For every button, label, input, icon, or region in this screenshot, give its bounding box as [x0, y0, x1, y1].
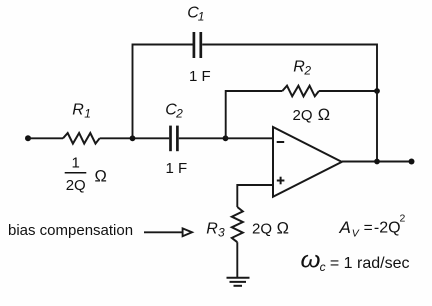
value 1/2Q ohm of R1 — [65, 155, 107, 195]
svg-text:1: 1 — [84, 107, 91, 121]
wire R3 to ground — [236, 242, 238, 278]
label R1 — [72, 102, 91, 121]
label C1 — [187, 4, 204, 23]
svg-text:1: 1 — [72, 155, 80, 172]
svg-text:ω: ω — [301, 247, 321, 273]
svg-text:c: c — [320, 260, 326, 274]
resistor R3 — [232, 207, 243, 242]
noninverting input wire to R3 — [237, 185, 273, 207]
output node junction — [374, 159, 380, 165]
resistor R1 — [63, 133, 100, 144]
node B junction — [223, 135, 229, 141]
wire C2 to node B — [179, 137, 226, 139]
svg-text:2Q: 2Q — [293, 107, 313, 124]
cutoff frequency formula wc = 1 rad/sec — [301, 247, 410, 275]
svg-text:Ω: Ω — [318, 106, 330, 124]
wire R1 to node A — [100, 137, 170, 139]
svg-text:2Q: 2Q — [252, 221, 272, 238]
node C junction — [374, 88, 380, 94]
svg-text:R: R — [206, 221, 218, 238]
right rail down to output node — [376, 91, 378, 162]
label C2 — [165, 101, 183, 120]
svg-text:R: R — [72, 102, 84, 119]
svg-text:R: R — [293, 59, 305, 76]
svg-text:Ω: Ω — [277, 220, 289, 238]
svg-text:2: 2 — [303, 64, 311, 78]
output wire — [342, 161, 412, 163]
svg-text:=: = — [364, 220, 373, 237]
svg-text:V: V — [352, 227, 360, 239]
bias compensation arrow — [144, 231, 183, 233]
svg-text:1: 1 — [198, 9, 205, 23]
input terminal — [25, 135, 31, 141]
svg-text:Ω: Ω — [95, 167, 107, 185]
svg-text:3: 3 — [218, 226, 225, 240]
svg-text:= 1 rad/sec: = 1 rad/sec — [330, 255, 410, 272]
wire C1 to right rail — [202, 45, 377, 92]
wire node B to op-amp inverting input — [226, 137, 274, 139]
resistor R2 — [282, 86, 319, 97]
svg-text:2: 2 — [400, 213, 406, 225]
svg-text:bias compensation: bias compensation — [8, 222, 133, 239]
wire node A up to C1 branch — [133, 45, 194, 139]
wire input to R1 — [28, 137, 63, 139]
output terminal — [409, 159, 415, 165]
gain formula Av = -2Q^2 — [339, 213, 406, 240]
wire R2 to node C — [319, 90, 377, 92]
capacitor C2 — [171, 126, 178, 152]
wire node B up to R2 branch — [226, 91, 283, 138]
node A junction — [130, 135, 136, 141]
op-amp plus sign — [277, 177, 285, 185]
svg-text:2Q: 2Q — [66, 177, 86, 194]
label R2 — [293, 59, 311, 78]
svg-text:1 F: 1 F — [189, 68, 211, 85]
svg-text:A: A — [339, 218, 351, 237]
label R3 — [206, 221, 225, 240]
svg-text:1 F: 1 F — [166, 160, 188, 177]
op-amp minus sign — [277, 141, 285, 143]
capacitor C1 — [194, 32, 201, 58]
svg-text:-2Q: -2Q — [374, 220, 401, 237]
op-amp U1 — [273, 127, 342, 197]
ground — [227, 278, 250, 286]
svg-text:2: 2 — [175, 106, 183, 120]
